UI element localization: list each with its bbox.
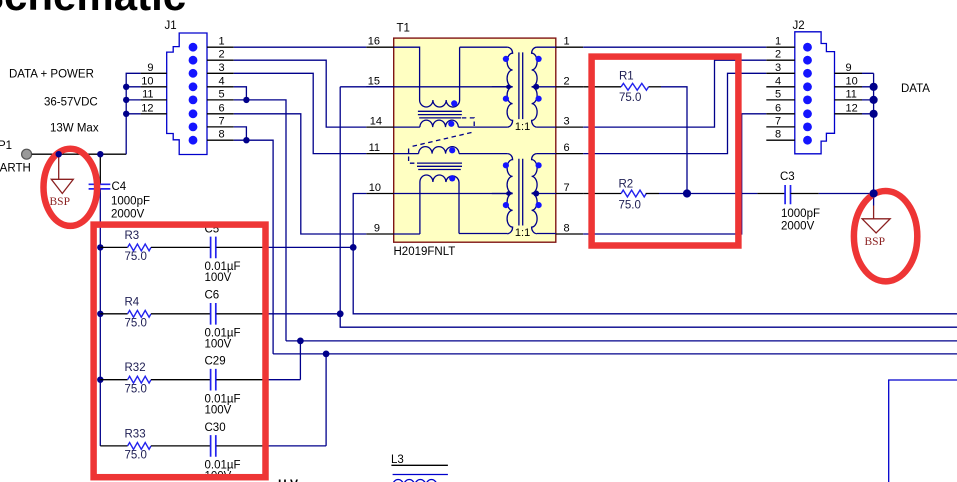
choke top upper winding polarity dot [451,100,457,106]
svg-text:12: 12 [846,102,858,114]
wire net J1.8 spare pair minus [234,140,273,354]
svg-text:11: 11 [369,142,380,154]
capacitor C29 wire right [216,379,265,381]
resistor R1 wire left [583,86,621,88]
junction dot J1 pin12 [123,111,129,117]
svg-text:R2: R2 [619,179,634,191]
capacitor C5 wire right [216,246,265,248]
svg-text:15: 15 [368,75,380,87]
transformer unit top core [519,52,523,119]
capacitor C5 plates [211,237,216,259]
svg-text:DATA: DATA [901,83,930,95]
svg-text:1000pF: 1000pF [781,208,820,220]
wire row3 riser [299,341,301,380]
inductor L3 top line [391,464,448,466]
transformer unit bottom core [519,159,523,226]
svg-text:1: 1 [219,36,225,48]
choke top upper winding arcs [420,100,460,107]
svg-text:C29: C29 [205,356,226,368]
junction dot C3 BSP node [870,189,878,197]
transformer T1 right pin stubs [556,47,583,234]
svg-text:T1: T1 [397,23,410,35]
svg-text:6: 6 [219,102,225,114]
wire EARTH net from P1 [32,153,126,155]
connector J2 right pin wires [862,73,874,114]
junction dot T1.10 row1 [350,244,357,251]
svg-text:8: 8 [564,223,570,235]
svg-text:2: 2 [564,75,570,87]
resistor R4 wires and zigzag [100,313,127,315]
svg-text:1:1: 1:1 [515,121,530,133]
annotation red ellipse BSP right [854,191,917,281]
choke bottom upper winding polarity dot [449,147,455,153]
junction dot T1.15 row2 [337,310,344,317]
connector J1 pin dots [189,43,198,145]
svg-text:3: 3 [219,62,225,74]
svg-text:75.0: 75.0 [125,450,147,462]
capacitor C3 plates [785,185,790,204]
transformer T1 left pin stubs [366,47,393,234]
wire pin15 through to transformer tap [394,86,513,88]
junction dot J1 pins 4-5 [243,97,249,103]
transformer unit bottom connections [459,154,556,234]
wire pin10 through to transformer tap [394,193,513,195]
block corner bottom right [889,380,957,482]
transformer unit top connections [459,47,556,127]
capacitor C6 wire right [216,313,265,315]
svg-text:BSP: BSP [865,236,885,248]
connector J1 pin numbers 1-8 [219,36,225,141]
svg-text:9: 9 [147,62,153,74]
svg-text:6: 6 [775,102,781,114]
svg-text:1000pF: 1000pF [111,195,150,207]
connector J2 body outline [795,32,835,154]
svg-text:5: 5 [775,88,781,100]
junction dot C4 tap [97,151,103,157]
svg-text:C6: C6 [205,290,220,302]
svg-text:L3: L3 [391,454,404,466]
resistor R33 wires and zigzag [100,445,127,447]
choke bottom lower winding arcs [420,175,459,182]
svg-text:12: 12 [141,102,153,114]
svg-text:V: V [290,477,298,482]
ground BSP left triangle [51,179,73,193]
svg-text:2: 2 [775,49,781,61]
svg-text:C3: C3 [780,171,795,183]
svg-text:1: 1 [775,36,781,48]
svg-text:2000V: 2000V [781,221,815,233]
svg-text:3: 3 [564,116,570,128]
transformer unit bottom right winding dots [536,162,542,168]
transformer unit top right winding [532,47,538,127]
wire T1.10 vertical to bus A [353,194,957,314]
svg-text:R1: R1 [619,71,634,83]
junction dot bus C row3 [297,338,304,345]
capacitor C3 wire left [757,193,785,195]
resistor R2 wire right to C3 [646,193,659,195]
connector J2 left pin stubs [766,47,795,140]
transformer unit bottom left winding dots [503,162,509,168]
transformer unit bottom right winding [532,154,538,234]
svg-text:7: 7 [775,115,781,127]
transformer T1 body [394,38,556,242]
ground BSP right triangle [862,219,890,233]
wire net J1.6 to T1.9 [234,114,366,234]
choke bottom core lines [417,163,462,169]
capacitor C29 plates [211,369,216,391]
svg-text:2000V: 2000V [111,209,145,221]
svg-text:Schematic: Schematic [0,0,186,19]
transformer unit bottom left winding [507,154,513,234]
connector J1 body outline [167,33,207,155]
svg-text:13W Max: 13W Max [50,123,99,135]
svg-text:9: 9 [846,62,852,74]
svg-text:36-57VDC: 36-57VDC [44,97,98,109]
svg-text:J2: J2 [793,20,805,32]
svg-text:75.0: 75.0 [125,318,147,330]
svg-text:DATA + POWER: DATA + POWER [9,69,94,81]
wire C4 bottom to RC rows column [99,189,101,446]
choke coupling dashed link [409,118,475,163]
choke top: pin16 entry and winding frame [394,47,460,100]
capacitor C30 plates [211,435,216,457]
choke top lower winding polarity dot [448,121,454,127]
connector J1 right pin stubs [207,47,234,140]
connector J2 pin dots [803,43,812,145]
svg-text:7: 7 [219,115,225,127]
wire net T1.8 to J2.6 [583,114,766,234]
wire net J1.1 to T1.16 [234,46,366,48]
connector J1 pin numbers 9-12 [141,62,153,115]
annotation red ellipse BSP left [44,149,98,226]
transformer unit top tap dots [506,85,510,89]
svg-text:J1: J1 [165,20,177,32]
wire net J1.5 spare pair plus [234,100,286,341]
junction dot J2.11 [870,96,878,104]
svg-text:R32: R32 [125,362,146,374]
wire EARTH net up to J1 pins 9-12 [126,73,140,154]
choke bottom lower winding polarity dot [449,175,455,181]
transformer unit top left winding dots [503,56,509,62]
wire T1.15 center tap feed [340,86,394,88]
junction dot R1-R2 node [683,189,691,197]
junction dot row3 left [97,377,103,383]
wire net J1.3 to T1.11 [234,73,366,153]
resistor R1 zigzag [621,83,648,90]
resistor R2 wire left [583,193,621,195]
resistor R32 wires and zigzag [100,379,127,381]
svg-text:BSP: BSP [50,196,70,208]
wire row4 riser [325,354,327,446]
choke top lower winding baseline [394,126,460,128]
wire net T1.1 to J2.1 [583,46,766,48]
svg-text:10: 10 [141,75,153,87]
svg-text:3: 3 [775,62,781,74]
wire bus C from J1 spare pair plus [286,340,957,342]
svg-text:14: 14 [370,116,382,128]
svg-text:6: 6 [564,142,570,154]
svg-text:75.0: 75.0 [619,92,641,104]
svg-text:H2019FNLT: H2019FNLT [394,246,456,258]
wire net J1.4 down to pin5 [234,87,247,100]
wire net T1.3 to J2.2 [583,60,766,127]
svg-text:EARTH: EARTH [0,163,31,175]
svg-text:2: 2 [219,49,225,61]
ground BSP left stem [58,154,60,179]
svg-text:75.0: 75.0 [125,251,147,263]
transformer T1 left pin numbers [368,36,382,235]
svg-text:16: 16 [368,36,380,48]
connector J2 pin numbers 1-8 [775,36,781,141]
annotation red rectangle R1 R2 [592,57,739,246]
resistor R3 wires and zigzag [100,246,127,248]
junction dot row1 left [97,244,103,250]
choke bottom pin9 frame [394,182,459,234]
ground BSP right stem [873,194,875,206]
svg-text:R33: R33 [125,428,146,440]
svg-text:8: 8 [219,129,225,141]
svg-text:4: 4 [219,75,225,87]
choke top core lines [418,111,462,118]
svg-text:R4: R4 [125,296,140,308]
svg-text:H: H [278,477,287,482]
capacitor C6 plates [211,303,216,325]
choke top lower winding arcs [420,120,458,127]
junction dot J1 pin10 [123,84,129,90]
capacitor C4 vertical feed [99,154,101,184]
svg-text:11: 11 [142,88,153,100]
svg-text:100V: 100V [205,404,232,416]
junction dot J2.10 [870,83,878,91]
transformer T1 right pin numbers [564,36,570,235]
svg-text:10: 10 [369,182,381,194]
transformer unit top right winding dots [536,56,542,62]
choke bottom winding baseline upper [394,153,419,155]
transformer unit bottom tap dots [506,191,510,195]
svg-text:C4: C4 [112,181,127,193]
wire net T1.6 to J2.3 [583,73,766,153]
junction dot row2 left [97,311,103,317]
svg-text:5: 5 [219,88,225,100]
inductor L3 second line [393,474,448,476]
wire net J1.2 to T1.14 [234,60,366,127]
svg-text:7: 7 [564,182,570,194]
capacitor C30 wire right [216,445,265,447]
junction dot J2.12 [870,110,878,118]
svg-text:100V: 100V [205,338,232,350]
svg-text:4: 4 [775,75,781,87]
svg-text:P1: P1 [0,140,12,152]
resistor R2 zigzag [621,190,646,197]
annotation red rectangle RC rows [94,225,266,478]
connector J2 pin numbers 9-12 [846,62,858,115]
connector J1 left pin stubs [141,73,167,114]
wire net J1.7 down to pin8 [234,127,247,140]
svg-text:1:1: 1:1 [515,227,530,239]
svg-text:8: 8 [775,129,781,141]
resistor R1 wire right down to R2 node [649,86,661,88]
svg-text:75.0: 75.0 [125,384,147,396]
connector J2 right pin stubs [835,73,863,114]
wire bus D from J1 spare pair minus [273,353,957,355]
junction dot J1 pin11 [123,97,129,103]
junction dot bus D row4 [323,351,330,358]
svg-text:10: 10 [846,75,858,87]
transformer unit top left winding [507,47,513,127]
svg-text:75.0: 75.0 [619,200,641,212]
junction dot BSP tap [56,151,62,157]
capacitor C3 wire right [791,193,819,195]
capacitor C4 plates [89,184,111,189]
inductor L3 coil arcs (cropped) [393,479,437,482]
svg-text:11: 11 [846,88,857,100]
svg-text:9: 9 [374,223,380,235]
junction dot J1 pins 7-8 [243,137,249,143]
connector P1 pin circle [22,149,32,159]
wire T1.15 vertical to bus B [340,87,957,327]
svg-text:1: 1 [564,36,570,48]
svg-text:100V: 100V [205,272,232,284]
svg-text:R3: R3 [125,230,140,242]
svg-text:C30: C30 [205,422,226,434]
wire J2 right column down to C3 node [873,73,875,193]
choke bottom upper winding arcs [419,147,459,154]
